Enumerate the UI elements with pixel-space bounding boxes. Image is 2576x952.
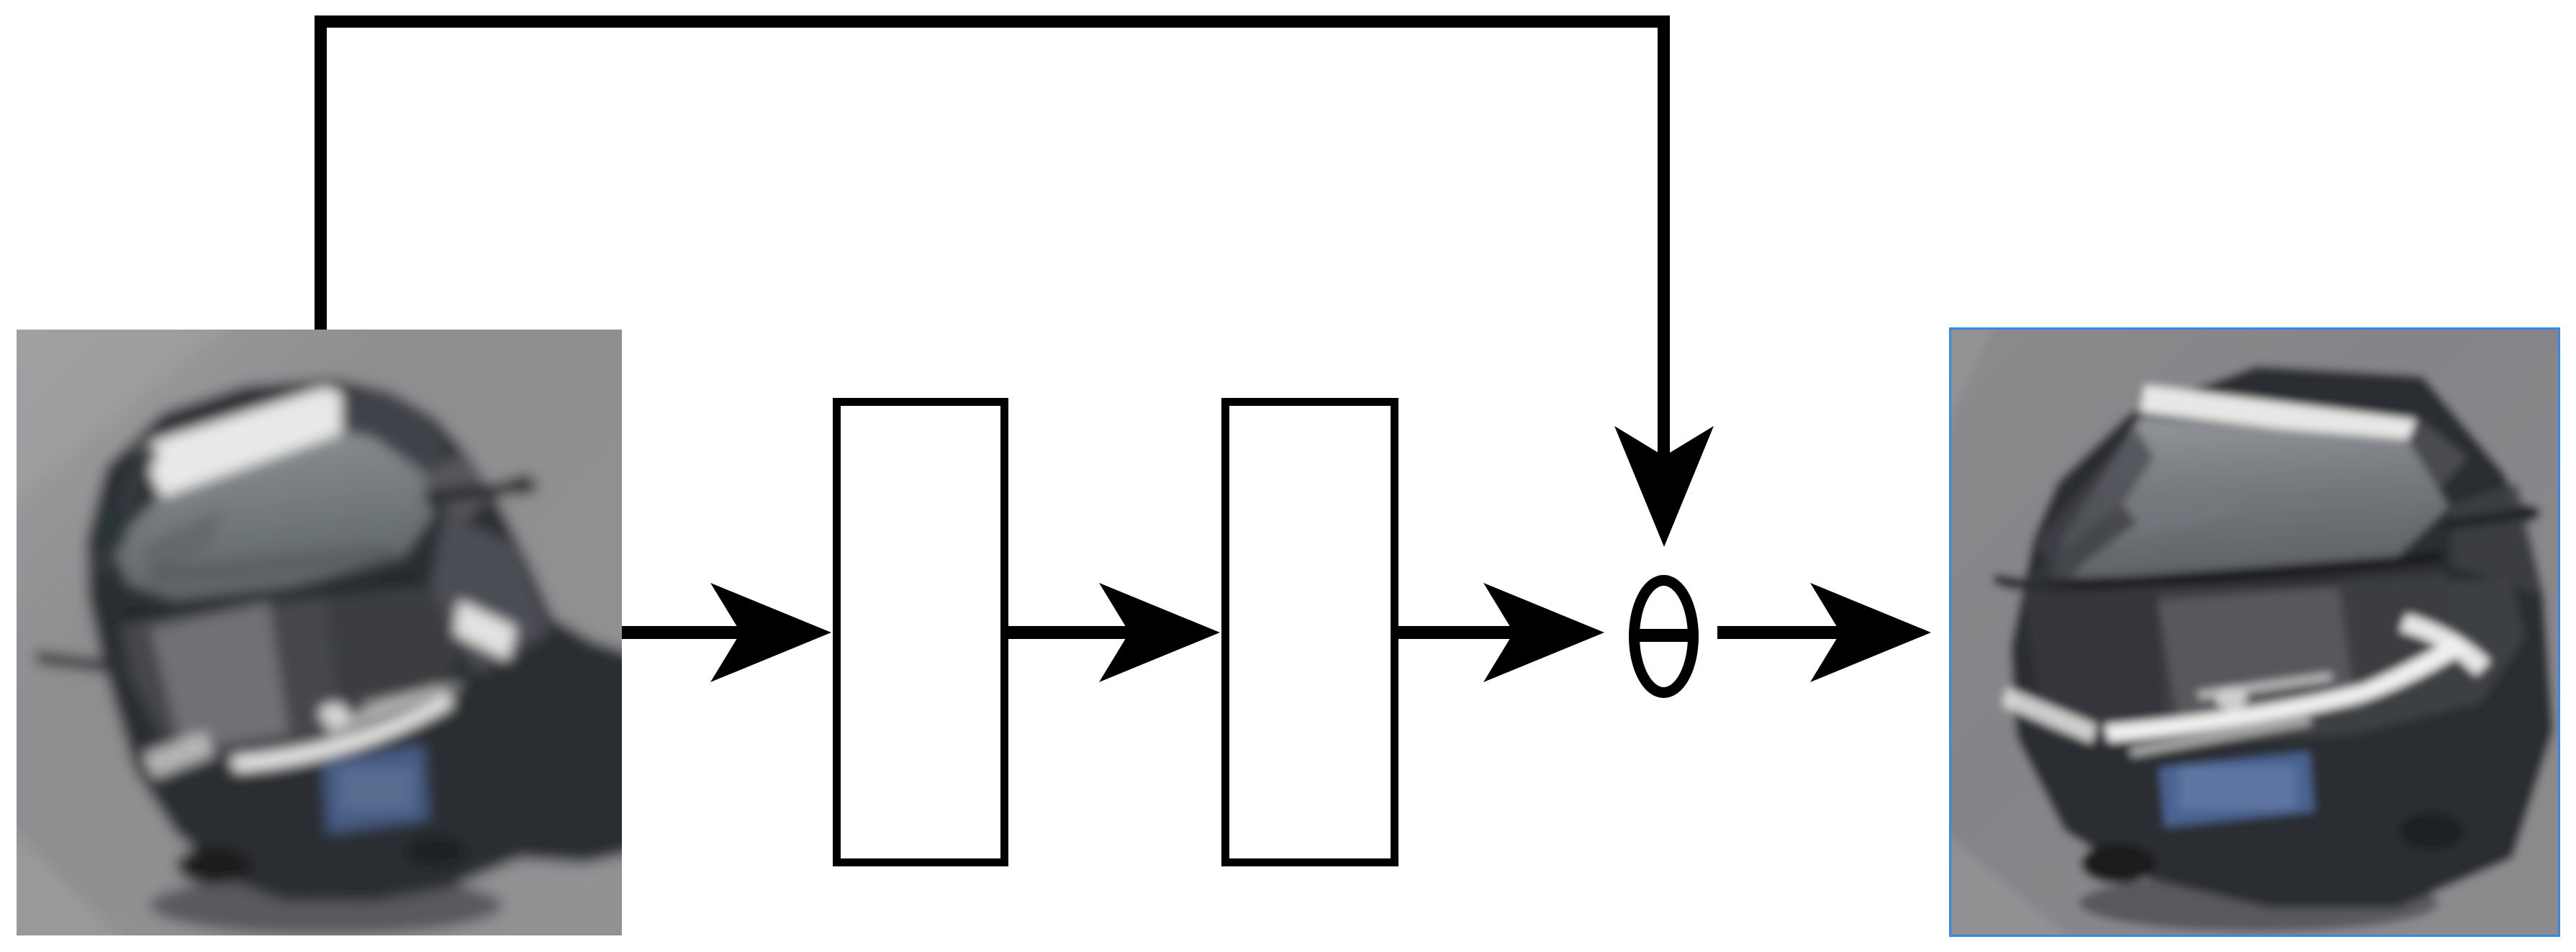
input image (blurry car photo)	[0, 272, 700, 952]
output image (sharper car photo, blue border)	[1892, 270, 2576, 952]
box 1	[837, 402, 1005, 863]
arrowhead into theta (down)	[1614, 426, 1714, 547]
arrow from box 2 to theta	[1398, 626, 1517, 639]
arrow from theta to output image	[1717, 626, 1843, 639]
feedback wire	[321, 22, 1664, 458]
box 2	[1226, 402, 1395, 863]
theta symbol	[1631, 581, 1697, 693]
arrow from box 1 to box 2	[1008, 626, 1132, 639]
arrow from input image to box 1	[622, 626, 743, 639]
